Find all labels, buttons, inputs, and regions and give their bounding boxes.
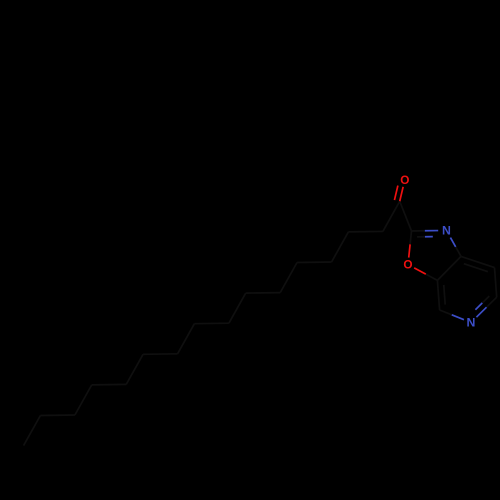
svg-text:N: N	[442, 223, 451, 237]
svg-text:N: N	[467, 316, 476, 330]
svg-text:O: O	[403, 258, 412, 272]
svg-text:O: O	[400, 173, 409, 187]
